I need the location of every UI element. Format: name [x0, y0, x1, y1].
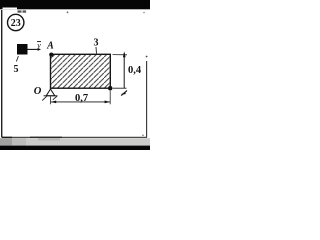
svg-text:23: 23	[11, 18, 21, 29]
svg-text:O: O	[34, 86, 42, 97]
velocity arrowhead	[38, 48, 41, 51]
pivot triangle at O	[46, 89, 55, 96]
extension line left (under pivot)	[49, 97, 51, 105]
speck dot 3	[142, 135, 144, 137]
leader for 5	[16, 56, 18, 62]
bottom dim arrowhead right	[105, 101, 110, 104]
svg-text:0,7: 0,7	[75, 93, 88, 104]
velocity arrow line	[28, 48, 39, 50]
body 5 (black square)	[17, 44, 28, 55]
right page border dot	[146, 56, 148, 58]
svg-text:0,4: 0,4	[128, 65, 142, 76]
svg-text:v: v	[37, 41, 41, 50]
bottom dim arrowhead left	[51, 101, 56, 104]
ground hatch left	[42, 96, 47, 100]
svg-text:3: 3	[94, 38, 99, 49]
top extension line for 0,4	[113, 54, 128, 56]
bottom rule	[2, 136, 147, 138]
plate 3 (hatched rectangle)	[51, 54, 111, 88]
svg-text:A: A	[46, 40, 54, 51]
left page border	[1, 10, 3, 138]
top black band	[0, 0, 150, 9]
bottom dimension line	[51, 101, 110, 103]
speck dot 1	[67, 11, 69, 13]
svg-text:5: 5	[14, 64, 19, 75]
extension line right (under dot)	[109, 91, 111, 105]
problem number badge circle 23	[8, 14, 24, 30]
top dim arrowhead	[123, 51, 126, 57]
corner dot bottom-right	[108, 86, 113, 91]
pivot base line	[44, 95, 58, 97]
bottom gray band	[0, 138, 150, 145]
bottom dim arrow tick	[121, 91, 127, 96]
bottom black band	[0, 146, 150, 150]
corner dot A	[49, 53, 53, 57]
leader for 3	[95, 47, 98, 54]
right page border	[146, 61, 148, 138]
page background	[0, 0, 150, 150]
ground hatch right	[53, 96, 57, 100]
vertical dimension line 0,4	[123, 53, 125, 88]
bottom extension line for 0,4	[113, 87, 127, 89]
small dark dashes under band	[18, 10, 22, 12]
speck dot 2	[143, 12, 145, 14]
